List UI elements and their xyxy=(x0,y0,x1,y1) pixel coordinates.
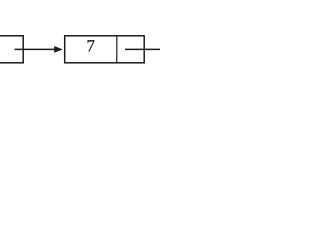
background xyxy=(0,0,160,120)
value label 7 (Liberation Serif glyph outline) xyxy=(88,40,95,51)
node box with value 7 xyxy=(65,36,145,63)
node box left (cut off at image edge) xyxy=(0,36,23,63)
divider between value cell and pointer cell xyxy=(116,36,118,63)
wire: pointer line exiting right edge xyxy=(125,48,161,50)
arrowhead into node 7 xyxy=(54,46,63,53)
wire: pointer line from left node xyxy=(15,48,56,50)
